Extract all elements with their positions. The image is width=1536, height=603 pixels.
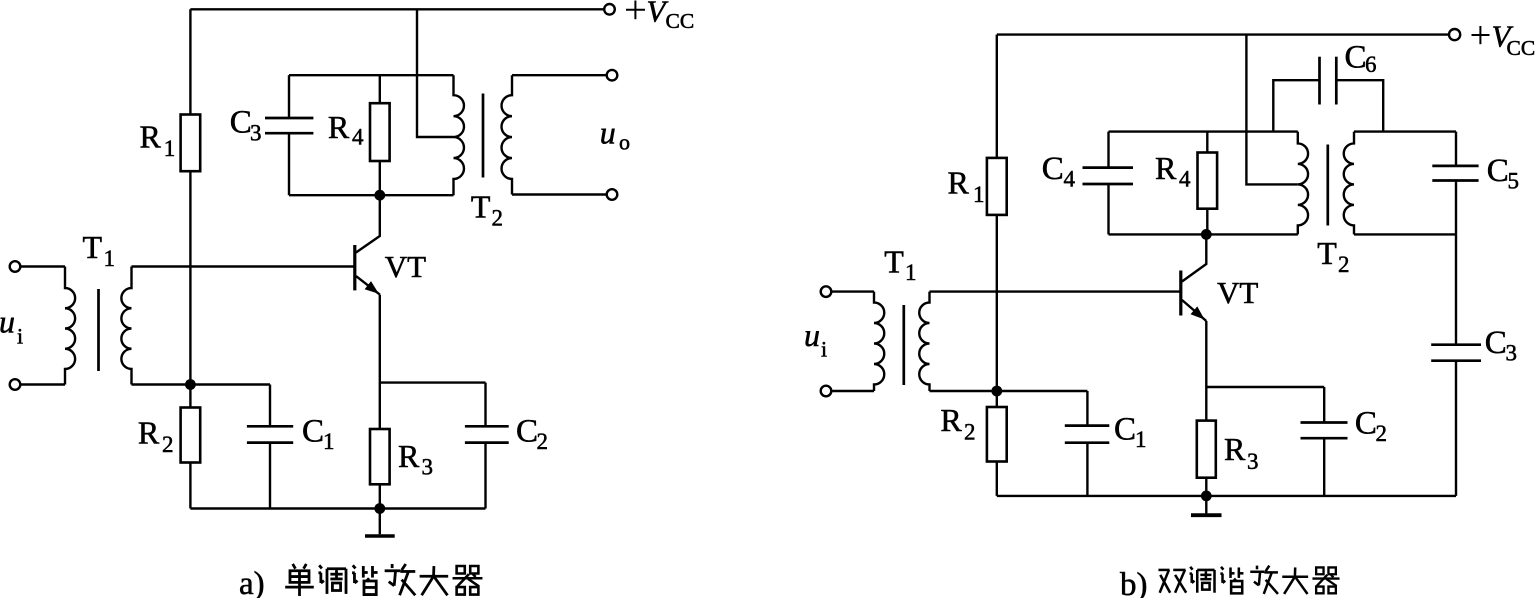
svg-text:3: 3 xyxy=(1247,449,1259,474)
svg-text:R: R xyxy=(140,119,162,155)
svg-text:R: R xyxy=(328,109,350,145)
ground (a) xyxy=(379,509,381,535)
svg-text:1: 1 xyxy=(104,246,116,271)
svg-text:4: 4 xyxy=(1064,167,1076,192)
ground (b) xyxy=(1205,496,1207,514)
wire Vcc top rail (a) xyxy=(190,8,604,10)
resistor R3 (a) xyxy=(370,429,390,484)
capacitor C6 (b) xyxy=(1273,80,1319,131)
svg-text:T: T xyxy=(83,229,103,265)
svg-text:1: 1 xyxy=(1135,427,1147,452)
svg-text:VT: VT xyxy=(385,249,426,284)
svg-text:3: 3 xyxy=(250,121,262,146)
wire input bottom (a) xyxy=(20,383,65,385)
transistor VT (a) emitter xyxy=(356,276,380,295)
transformer T2 (a) core xyxy=(482,94,485,178)
wire Vcc tap to T2 (a) xyxy=(417,9,454,137)
svg-text:1: 1 xyxy=(323,429,335,454)
node bias junction (a) xyxy=(185,379,196,390)
capacitor C2 (a) xyxy=(380,381,486,383)
svg-text:R: R xyxy=(1224,431,1246,467)
transformer T1 (a) core xyxy=(97,289,100,371)
svg-text:R: R xyxy=(138,415,160,451)
svg-text:2: 2 xyxy=(964,420,976,445)
tank top rail (a) xyxy=(289,74,454,76)
transformer T1 (b) input terminals xyxy=(821,286,832,297)
transistor VT (a) base bar xyxy=(353,245,356,290)
svg-text:C: C xyxy=(1114,412,1136,448)
transistor VT (b) emitter xyxy=(1182,300,1206,321)
wire bias rail (a) xyxy=(132,383,271,385)
svg-text:1: 1 xyxy=(164,136,176,161)
transformer T2 (b) core xyxy=(1326,145,1329,226)
svg-text:u: u xyxy=(804,317,820,353)
label +Vcc (a) xyxy=(626,1,645,20)
wire base (b) xyxy=(930,290,1181,292)
svg-text:2: 2 xyxy=(1338,252,1350,277)
capacitor C3 (a) xyxy=(288,75,290,118)
svg-text:C: C xyxy=(302,414,324,450)
capacitor C4 (b) xyxy=(1107,132,1109,168)
node emitter-ground junction (a) xyxy=(374,503,385,514)
wire bias rail (b) xyxy=(930,390,1088,392)
resistor R4 (b) xyxy=(1206,132,1208,153)
svg-text:3: 3 xyxy=(1506,341,1518,366)
svg-text:u: u xyxy=(600,115,616,151)
wire output top (a) xyxy=(512,74,607,76)
svg-text:T: T xyxy=(1317,235,1337,271)
capacitor C5 (b) xyxy=(1455,132,1457,166)
resistor R1 (a) xyxy=(189,9,191,114)
svg-text:u: u xyxy=(0,303,15,339)
svg-text:i: i xyxy=(821,337,827,362)
capacitor C3 (b) xyxy=(1455,234,1457,344)
capacitor C1 (a) xyxy=(269,385,271,427)
terminal +Vcc (a) xyxy=(604,4,615,15)
svg-text:C: C xyxy=(1345,40,1367,76)
node tank-collector junction (b) xyxy=(1201,229,1212,240)
transistor VT (a) collector xyxy=(356,195,380,252)
svg-text:i: i xyxy=(17,324,23,349)
svg-text:R: R xyxy=(1155,150,1177,186)
svg-text:3: 3 xyxy=(422,455,434,480)
resistor R3 (b) xyxy=(1197,421,1216,478)
tank top rail (b) xyxy=(1109,130,1298,132)
svg-text:C: C xyxy=(1042,151,1064,187)
transformer T1 (a) secondary winding xyxy=(121,267,131,385)
wire input top (a) xyxy=(20,265,65,267)
transformer T1 (b) primary winding xyxy=(874,292,884,391)
wire input bottom (b) xyxy=(831,390,874,392)
transformer T2 (a) secondary winding xyxy=(502,75,512,194)
svg-text:o: o xyxy=(619,130,630,155)
svg-text:C: C xyxy=(230,105,252,141)
svg-text:a): a) xyxy=(239,566,265,598)
svg-text:R: R xyxy=(398,438,420,474)
svg-text:b): b) xyxy=(1120,567,1148,598)
transformer T2 (b) secondary winding xyxy=(1344,132,1354,235)
transformer T2 (a) primary winding xyxy=(454,75,464,195)
resistor R4 (a) xyxy=(379,75,381,103)
transformer T1 (a) primary winding xyxy=(65,267,75,385)
transistor VT (b) base bar xyxy=(1179,271,1182,316)
tank bottom rail (b) xyxy=(1109,233,1298,235)
transformer T1 (b) core xyxy=(902,305,905,385)
node emitter-ground junction (b) xyxy=(1201,491,1212,502)
capacitor C2 (b) xyxy=(1206,386,1324,388)
transistor VT (b) collector xyxy=(1182,234,1206,281)
terminal output top (a) xyxy=(607,70,618,81)
svg-text:2: 2 xyxy=(537,429,549,454)
tank bottom rail (a) xyxy=(289,194,454,196)
svg-text:C: C xyxy=(516,414,538,450)
svg-text:4: 4 xyxy=(1179,167,1191,192)
transformer T1 (a) input terminals xyxy=(10,261,21,272)
node bias junction (b) xyxy=(991,386,1002,397)
transformer T2 (b) primary winding xyxy=(1298,132,1308,235)
secondary tank bottom rail (b) xyxy=(1354,233,1456,235)
resistor R1 (b) xyxy=(996,35,998,158)
svg-text:1: 1 xyxy=(973,182,985,207)
svg-text:2: 2 xyxy=(1376,421,1388,446)
wire output bottom (a) xyxy=(512,193,607,195)
svg-text:T: T xyxy=(884,244,904,280)
wire base (a) xyxy=(132,265,355,267)
secondary tank top rail (b) xyxy=(1354,130,1456,132)
label +Vcc (b) xyxy=(1472,26,1490,44)
svg-text:T: T xyxy=(471,188,491,224)
svg-text:6: 6 xyxy=(1365,52,1377,77)
svg-text:C: C xyxy=(1355,406,1377,442)
svg-text:1: 1 xyxy=(905,260,917,285)
svg-text:CC: CC xyxy=(666,9,695,33)
svg-text:C: C xyxy=(1485,325,1507,361)
wire Vcc top rail (b) xyxy=(997,33,1449,35)
wire Vcc tap to T2 (b) xyxy=(1246,35,1297,185)
wire input top (b) xyxy=(831,290,874,292)
svg-text:R: R xyxy=(940,402,962,438)
svg-text:4: 4 xyxy=(352,125,364,150)
resistor R2 (a) xyxy=(189,385,191,408)
svg-text:C: C xyxy=(1487,153,1509,189)
svg-text:2: 2 xyxy=(492,206,504,231)
svg-text:CC: CC xyxy=(1507,36,1536,60)
svg-text:2: 2 xyxy=(162,432,174,457)
svg-text:VT: VT xyxy=(1217,275,1258,310)
terminal +Vcc (b) xyxy=(1449,29,1460,40)
capacitor C1 (b) xyxy=(1086,391,1088,426)
svg-text:5: 5 xyxy=(1508,169,1520,194)
terminal output bottom (a) xyxy=(607,189,618,200)
node tank-collector junction (a) xyxy=(374,190,385,201)
transformer T1 (b) secondary winding xyxy=(919,292,929,391)
resistor R2 (b) xyxy=(996,391,998,407)
wire ground rail (a) xyxy=(190,507,485,509)
svg-text:R: R xyxy=(948,165,970,201)
wire ground rail (b) xyxy=(997,495,1456,497)
